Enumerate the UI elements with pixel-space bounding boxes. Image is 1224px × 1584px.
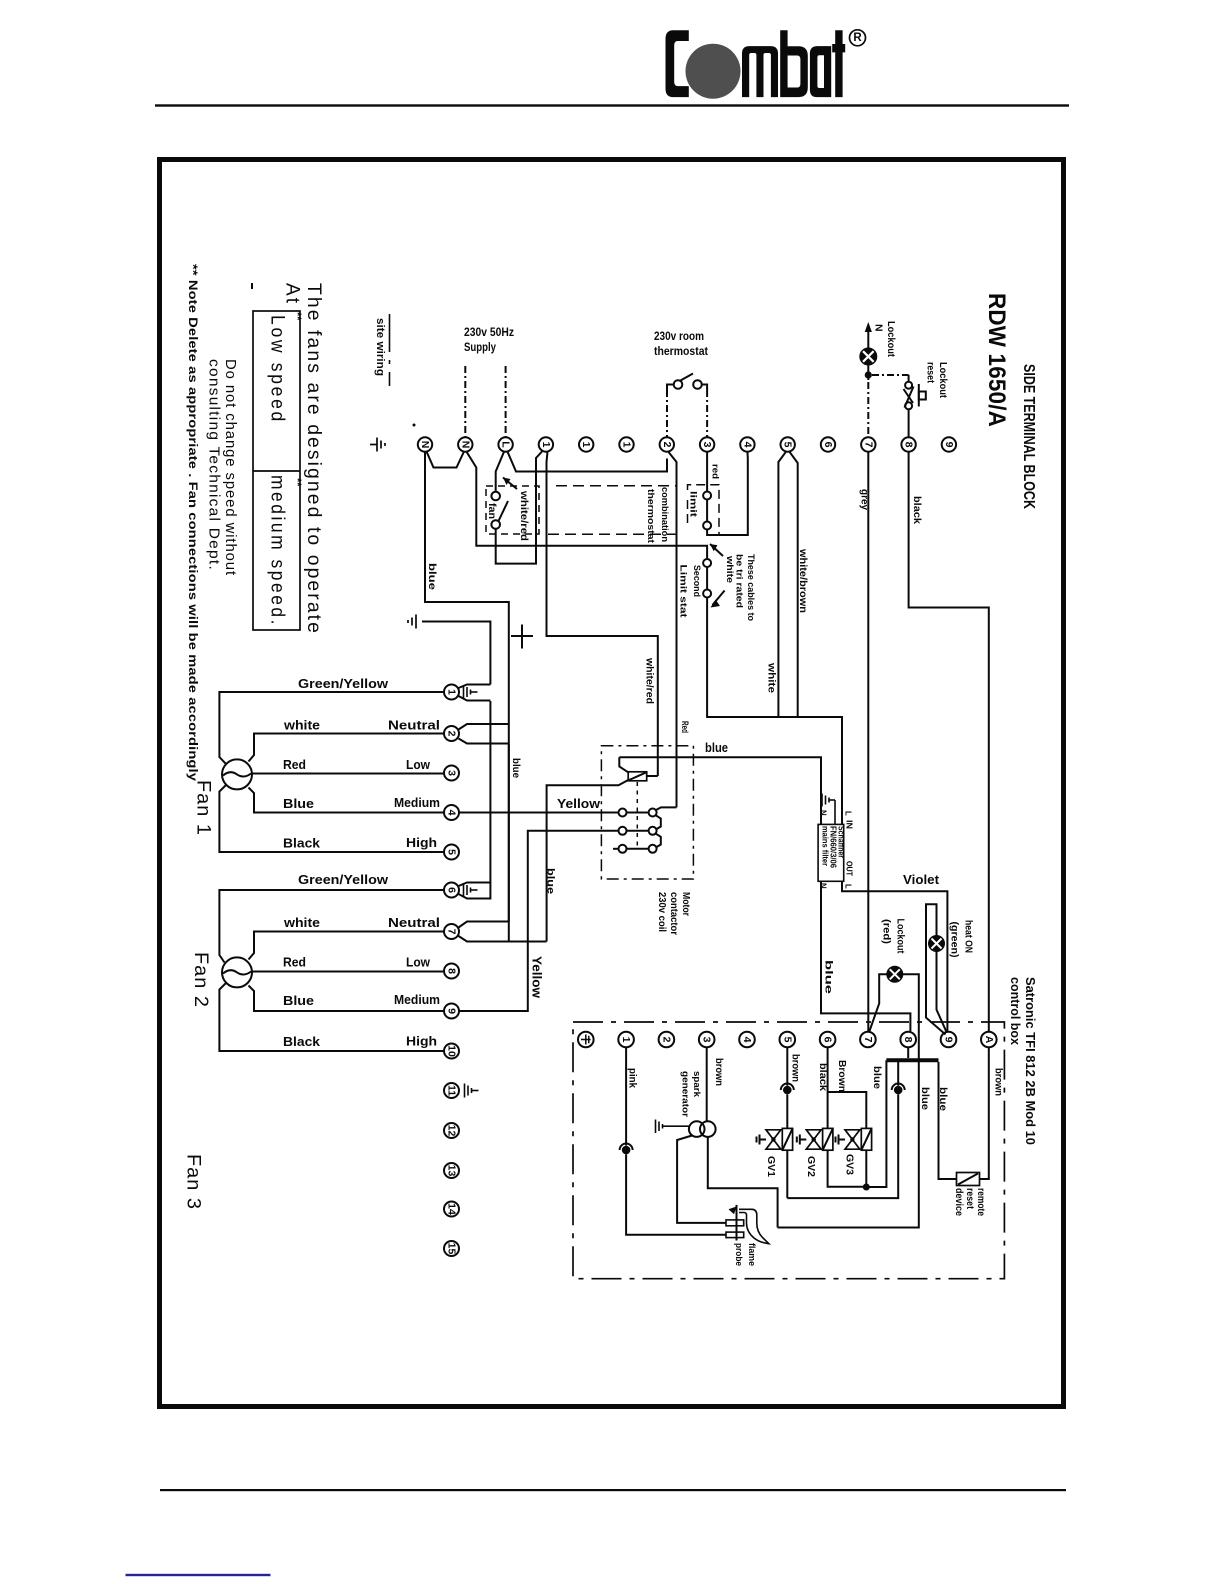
gang link 2-3 (656, 834, 661, 848)
svg-text:white: white (283, 915, 320, 930)
svg-text:brown: brown (713, 1058, 725, 1086)
svg-text:fan: fan (486, 503, 497, 519)
earth branch wire (422, 622, 490, 685)
svg-text:L: L (844, 811, 853, 816)
control terminal 1 (618, 1032, 634, 1048)
svg-text:1: 1 (620, 1037, 632, 1043)
svg-text:Lockout: Lockout (895, 919, 907, 954)
svg-text:230v room: 230v room (654, 329, 704, 343)
svg-text:limit: limit (688, 491, 699, 518)
svg-text:reset: reset (925, 362, 937, 383)
svg-text:Red: Red (283, 955, 306, 970)
heat on lamp (929, 936, 944, 951)
svg-text:230v coil: 230v coil (656, 892, 667, 932)
svg-text:blue: blue (823, 960, 835, 994)
control terminal 3 (699, 1032, 715, 1048)
svg-text:4: 4 (741, 442, 753, 448)
node T7 stub lower (459, 936, 547, 942)
coil neutral wire (547, 780, 629, 942)
svg-text:(red): (red) (881, 919, 893, 944)
Fan1 motor (222, 759, 252, 789)
svg-text:7: 7 (446, 929, 458, 935)
terminal 8 (901, 437, 915, 451)
fan terminal 12 (444, 1123, 459, 1138)
arrow to junction (710, 544, 723, 556)
fan1 white wire (249, 734, 445, 762)
svg-text:6: 6 (446, 887, 458, 893)
svg-text:white/red: white/red (518, 490, 529, 541)
terminal 1b (579, 437, 593, 451)
svg-text:RDW 1650/A: RDW 1650/A (983, 293, 1010, 427)
Combat logo m (742, 46, 778, 97)
terminal 2 (660, 437, 674, 451)
outer border (160, 160, 1064, 1407)
combination thermostat box (556, 485, 677, 487)
svg-text:9: 9 (943, 1037, 955, 1043)
second limit contacts (703, 559, 711, 567)
limit stat box (688, 485, 720, 535)
plus symbol (511, 635, 533, 637)
node T2 stub upper (459, 724, 509, 730)
svg-text:Lockout: Lockout (937, 362, 949, 398)
svg-text:blue: blue (426, 563, 438, 590)
fan switch blade (499, 501, 509, 521)
node T7 stub upper (459, 922, 509, 928)
svg-text:combination: combination (659, 487, 670, 542)
svg-text:Medium: Medium (394, 992, 440, 1007)
svg-text:1: 1 (621, 442, 633, 448)
blue wire filter N to T8 (821, 881, 910, 1031)
blue link line (126, 1574, 271, 1576)
svg-text:Yellow: Yellow (530, 956, 545, 999)
svg-text:14: 14 (446, 1203, 458, 1215)
wire L to fan switch (496, 452, 504, 492)
svg-text:Yellow: Yellow (557, 796, 601, 811)
contact row2 (619, 827, 627, 835)
fan1 labels (283, 676, 440, 851)
supply earth symbol (370, 438, 385, 452)
wire connector to GV1 return (787, 1094, 898, 1198)
terminal 1c (619, 437, 633, 451)
svg-text:Green/Yellow: Green/Yellow (298, 872, 389, 887)
wire switch to T1 (496, 452, 542, 564)
wire bar to GV23 return (866, 1060, 886, 1187)
svg-text:5: 5 (781, 1037, 793, 1043)
junction dot (865, 371, 872, 378)
room stat contact right (693, 380, 702, 389)
fan switch contact bottom (491, 520, 500, 529)
svg-text:GV2: GV2 (805, 1156, 817, 1177)
svg-text:1: 1 (580, 442, 592, 448)
terminal 7 (861, 437, 875, 451)
fan2 GY wire (219, 890, 444, 963)
svg-text:generator: generator (680, 1071, 691, 1117)
fan terminal 11 (444, 1083, 459, 1098)
control terminal 5 (780, 1032, 796, 1048)
svg-text:Green/Yellow: Green/Yellow (298, 676, 389, 691)
wire bar to remote reset (939, 1062, 957, 1179)
svg-text:4: 4 (741, 1037, 753, 1043)
coil (628, 772, 647, 781)
svg-text:Low: Low (406, 955, 431, 970)
fan1 blue wire (249, 788, 445, 813)
fan terminal 2 (444, 726, 459, 741)
svg-text:Supply: Supply (464, 340, 496, 354)
svg-text:N: N (419, 441, 431, 449)
svg-text:site wiring: site wiring (374, 318, 386, 376)
control terminal 7 (860, 1032, 876, 1048)
earth at fan terminal 1 (464, 685, 478, 699)
violet wire filter out to T9 (842, 881, 947, 1031)
fan terminal 3 (444, 766, 459, 781)
svg-text:1: 1 (446, 689, 458, 695)
wire limit to T4 (707, 452, 748, 535)
control box border (573, 1022, 1004, 1279)
svg-text:white/red: white/red (644, 657, 655, 704)
wire N to second limit (467, 452, 708, 559)
contactor box (601, 746, 693, 879)
lockout lamp wire up (867, 365, 869, 380)
spark secondary wire (708, 1137, 778, 1228)
svg-text:Blue: Blue (283, 796, 314, 811)
fan switch box (486, 486, 539, 534)
svg-text:Neutral: Neutral (388, 718, 440, 733)
svg-text:Blue: Blue (283, 993, 314, 1008)
svg-text:black: black (911, 496, 922, 524)
svg-text:High: High (406, 1034, 437, 1049)
svg-text:Black: Black (283, 836, 321, 851)
svg-text:7: 7 (862, 1037, 874, 1043)
svg-text:medium speed.: medium speed. (267, 475, 289, 627)
gang link 1-2 (656, 815, 661, 829)
Combat logo a (810, 46, 831, 97)
terminal N2 (458, 437, 472, 451)
wire T2 to red rail (668, 452, 676, 808)
fan terminal 8 (444, 964, 459, 979)
svg-text:contactor: contactor (668, 892, 679, 935)
schaffner filter box (818, 824, 844, 881)
svg-text:(green): (green) (949, 922, 961, 958)
svg-text:blue: blue (510, 758, 522, 778)
svg-text:3: 3 (446, 770, 458, 776)
svg-text:1: 1 (540, 442, 552, 448)
wire black T8 to A (909, 452, 989, 1032)
fan2 blue wire (249, 986, 445, 1012)
terminal N (418, 437, 432, 451)
svg-text:Limit stat: Limit stat (678, 565, 689, 619)
dashdot to reset (872, 374, 909, 376)
node T6fan stubs (459, 883, 491, 887)
svg-text:brown: brown (790, 1054, 802, 1082)
flame probe (726, 1220, 744, 1226)
reset switch (905, 382, 912, 389)
svg-text:11: 11 (446, 1085, 458, 1096)
wire whitebrown T5 (789, 452, 797, 717)
stray dot (413, 424, 416, 427)
Combat logo b (780, 30, 808, 97)
svg-text:be tri rated: be tri rated (735, 554, 745, 608)
wire bar to spark return (778, 1062, 919, 1228)
fan2 labels (283, 872, 440, 1049)
terminal L (498, 437, 512, 451)
svg-text:At: At (282, 283, 304, 305)
svg-text:High: High (406, 835, 437, 850)
svg-text:Medium: Medium (394, 795, 440, 810)
fan terminal 14 (444, 1202, 459, 1217)
svg-text:L: L (500, 441, 512, 448)
svg-text:consulting Technical Dept.: consulting Technical Dept. (206, 359, 223, 571)
earth at fan terminal 11 (465, 1084, 479, 1098)
fan1 red wire (252, 773, 444, 775)
spark earth (656, 1120, 690, 1134)
GV1 (786, 1048, 788, 1086)
svg-text:heat ON: heat ON (963, 920, 975, 953)
junction bar (886, 1058, 938, 1062)
svg-text:4: 4 (446, 810, 458, 816)
GV2 (827, 1048, 829, 1129)
spark transformer (689, 1121, 705, 1137)
svg-text:pink: pink (627, 1068, 639, 1088)
svg-text:N: N (459, 441, 471, 449)
GV3 (828, 1092, 867, 1128)
svg-text:Brown: Brown (836, 1060, 848, 1092)
registered mark (850, 30, 866, 46)
svg-text:Fan 2: Fan 2 (190, 952, 212, 1008)
svg-text:Motor: Motor (680, 892, 691, 916)
room stat contact left (674, 380, 683, 389)
limit contact bottom (703, 522, 711, 530)
control terminal 6 (820, 1032, 836, 1048)
svg-text:8: 8 (903, 442, 915, 448)
svg-text:7: 7 (862, 442, 874, 448)
wire blue from N (425, 452, 509, 922)
fan2 white wire (249, 932, 445, 960)
fan terminal 4 (444, 805, 459, 820)
svg-text:IN: IN (845, 820, 854, 829)
limit contact top (703, 492, 711, 500)
earth symbol (408, 615, 416, 629)
svg-text:white: white (283, 718, 320, 733)
svg-text:8: 8 (902, 1037, 914, 1043)
svg-text:**: ** (291, 478, 303, 487)
svg-text:N: N (819, 883, 828, 889)
svg-text:GV1: GV1 (765, 1156, 777, 1177)
wire N-N bridge (427, 452, 465, 468)
svg-text:control box: control box (1008, 977, 1022, 1045)
svg-text:Fan 1: Fan 1 (193, 780, 215, 836)
svg-text:Do not change speed without: Do not change speed without (222, 359, 239, 576)
node T2 stub lower (459, 739, 509, 744)
svg-text:R: R (853, 32, 862, 44)
svg-text:probe: probe (733, 1243, 744, 1266)
svg-text:device: device (953, 1188, 965, 1216)
filter earth (822, 794, 835, 825)
svg-text:OUT: OUT (845, 861, 854, 876)
fan terminal 7 (444, 924, 459, 939)
contact row3 (619, 845, 627, 853)
remote reset device (957, 1173, 980, 1186)
svg-text:flame: flame (746, 1243, 757, 1266)
Combat logo grey o (686, 44, 741, 99)
lockout red lamp (887, 967, 902, 982)
node T1fan stubs (459, 685, 491, 689)
svg-text:Low: Low (406, 757, 431, 772)
coil left wire (619, 757, 628, 772)
svg-text:white/brown: white/brown (797, 548, 808, 613)
grey wire T7 to control box (867, 452, 869, 1032)
yellow wire fan1 T4 to contact1 (459, 812, 618, 814)
svg-text:Second: Second (691, 565, 702, 597)
svg-text:N: N (873, 324, 885, 332)
terminal 9 (942, 437, 956, 451)
arrow to lower (713, 591, 725, 606)
room stat wires (667, 385, 674, 391)
control terminal 8 (900, 1032, 916, 1048)
wire second limit to bus (707, 598, 842, 825)
wire reset to T8 (908, 409, 910, 437)
svg-text:blue: blue (919, 1087, 931, 1110)
fan switch contact top (491, 492, 500, 501)
svg-text:GV3: GV3 (844, 1154, 856, 1175)
svg-text:remote: remote (975, 1188, 987, 1216)
svg-text:white: white (766, 662, 777, 694)
svg-text:13: 13 (446, 1165, 458, 1177)
connector under bar (894, 1086, 903, 1095)
fan terminal 1 (444, 685, 459, 700)
svg-text:** Note Delete as appropriate: ** Note Delete as appropriate . Fan conn… (186, 264, 200, 781)
svg-text:blue: blue (871, 1066, 883, 1089)
fan2 red wire (252, 971, 444, 973)
svg-text:10: 10 (446, 1045, 458, 1057)
fan terminal 15 (444, 1241, 459, 1256)
fan terminal 9 (444, 1004, 459, 1019)
svg-text:5: 5 (782, 442, 794, 448)
terminal 5 (781, 437, 795, 451)
Combat logo t (832, 30, 845, 97)
room stat blade (681, 374, 694, 381)
svg-text:Black: Black (283, 1034, 321, 1049)
terminal 6 (821, 437, 835, 451)
fan2 black wire (219, 983, 444, 1052)
svg-text:Neutral: Neutral (388, 915, 440, 930)
wire white T5 (778, 452, 786, 717)
svg-text:230v 50Hz: 230v 50Hz (464, 325, 514, 339)
wire L to red rail (508, 452, 668, 472)
header rule (155, 104, 1069, 106)
terminal 3 (700, 437, 714, 451)
svg-text:Red: Red (679, 721, 690, 733)
svg-text:9: 9 (943, 442, 955, 448)
fan terminal 6 (444, 883, 459, 898)
svg-text:grey: grey (859, 489, 870, 510)
fan terminal 13 (444, 1163, 459, 1178)
fan1 black wire (219, 785, 444, 853)
control terminal 2 (659, 1032, 675, 1048)
svg-text:8: 8 (446, 968, 458, 974)
linkage dashes (636, 782, 638, 850)
svg-text:spark: spark (691, 1071, 702, 1098)
svg-text:thermostat: thermostat (654, 344, 708, 358)
svg-text:Satronic TFI 812 2B Mod 10: Satronic TFI 812 2B Mod 10 (1023, 977, 1037, 1145)
terminal 4 (740, 437, 754, 451)
svg-text:white: white (725, 555, 735, 583)
svg-text:Fan 3: Fan 3 (183, 1154, 205, 1210)
stray dash (251, 283, 253, 289)
control terminal A (981, 1032, 997, 1048)
white/red arrow (503, 478, 517, 490)
svg-text:blue: blue (705, 741, 728, 755)
svg-text:9: 9 (446, 1008, 458, 1014)
svg-text:2: 2 (660, 1037, 672, 1043)
yellow wire fan2 T9 to contact2 (459, 831, 618, 1011)
coil right wire (647, 775, 658, 777)
control terminal earth (578, 1032, 594, 1048)
svg-text:2: 2 (446, 731, 458, 737)
Fan2 motor (222, 957, 252, 987)
fan terminal 5 (444, 845, 459, 860)
svg-text:Lockout: Lockout (885, 321, 897, 357)
svg-text:2: 2 (661, 442, 673, 448)
svg-text:blue: blue (545, 868, 557, 894)
svg-text:N: N (819, 810, 828, 816)
svg-text:3: 3 (701, 1037, 713, 1043)
lockout lamp (860, 349, 876, 365)
wire T1 down white/red (547, 452, 658, 776)
earth at fan terminal 6 (464, 883, 478, 897)
svg-text:The fans are designed to opera: The fans are designed to operate (303, 283, 325, 635)
svg-text:red: red (710, 464, 721, 479)
spark generator wire T3 (706, 1048, 708, 1122)
svg-text:mains filter: mains filter (821, 826, 830, 866)
footer rule (160, 1489, 1066, 1491)
pink wire T1 (625, 1048, 627, 1146)
svg-text:These cables to: These cables to (746, 554, 756, 621)
control terminal 9 (941, 1032, 957, 1048)
contact row1 (619, 809, 627, 817)
Combat logo letter C (666, 30, 689, 97)
spark primary left wire to probe (677, 1136, 726, 1223)
lockout arrow (867, 331, 869, 349)
svg-text:15: 15 (446, 1243, 458, 1255)
svg-text:Violet: Violet (903, 873, 940, 887)
svg-text:blue: blue (937, 1087, 949, 1111)
fan1 GY wire (219, 692, 444, 765)
control terminal 4 (739, 1032, 755, 1048)
svg-text:SIDE TERMINAL BLOCK: SIDE TERMINAL BLOCK (1020, 364, 1037, 509)
svg-text:brown: brown (993, 1068, 1005, 1096)
speed box (253, 311, 300, 630)
svg-text:12: 12 (446, 1125, 458, 1137)
svg-text:6: 6 (822, 442, 834, 448)
svg-text:thermostat: thermostat (645, 489, 656, 544)
fan terminal 10 (444, 1044, 459, 1059)
blue wire coil to filter (619, 757, 821, 824)
svg-text:A: A (983, 1036, 995, 1044)
svg-text:3: 3 (701, 442, 713, 448)
svg-text:5: 5 (446, 849, 458, 855)
red feed to contacts (656, 807, 677, 810)
wire T3 to limit (706, 452, 708, 492)
terminal 1a (539, 437, 553, 451)
svg-text:Low speed: Low speed (267, 315, 289, 424)
svg-text:**: ** (291, 312, 303, 321)
svg-text:6: 6 (822, 1037, 834, 1043)
supply dash-dot drops (464, 366, 466, 437)
svg-text:L: L (844, 884, 853, 889)
svg-text:black: black (817, 1063, 829, 1091)
svg-text:Red: Red (283, 757, 306, 772)
